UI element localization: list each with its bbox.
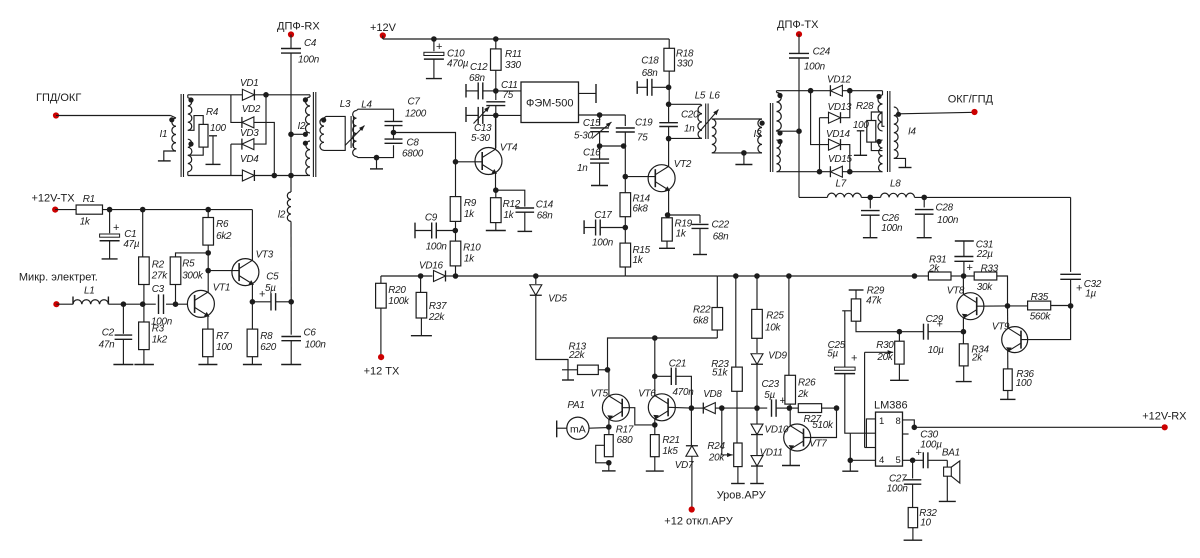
svg-text:+: + (967, 262, 973, 274)
svg-text:C12: C12 (470, 62, 488, 73)
diode VD12 (830, 85, 842, 96)
resistor R17 (604, 435, 613, 457)
svg-text:47n: 47n (99, 340, 115, 351)
ground tap R28 (857, 130, 865, 132)
svg-text:I2: I2 (298, 121, 306, 132)
svg-text:100n: 100n (426, 242, 448, 253)
svg-text:I1: I1 (160, 129, 168, 140)
resistor R9 (455, 162, 457, 197)
svg-text:R3: R3 (152, 324, 165, 335)
capacitor C2 (122, 304, 124, 334)
svg-text:100µ: 100µ (920, 440, 942, 451)
svg-text:6800: 6800 (402, 149, 424, 160)
wire VT7 base (804, 408, 837, 437)
capacitor C9 stub (414, 223, 416, 239)
svg-text:+: + (1076, 283, 1082, 295)
core L3-L4 (350, 116, 352, 148)
svg-text:5µ: 5µ (265, 283, 276, 294)
transformer T4 left winding upper (878, 95, 883, 131)
ground C6 (290, 341, 292, 365)
node ОКГ/ГПД output terminal (899, 112, 975, 114)
svg-text:R11: R11 (505, 49, 522, 60)
diode VD5 (535, 276, 537, 284)
capacitor C3 (158, 294, 160, 314)
ground L4 bottom (374, 155, 380, 161)
diode VD10 (756, 408, 758, 423)
svg-text:68n: 68n (537, 211, 553, 222)
svg-text:C24: C24 (813, 47, 831, 58)
diode VD2 (242, 117, 254, 128)
wire VD5 to R13 (536, 296, 568, 370)
ground T4 output winding (894, 158, 906, 167)
svg-text:1k: 1k (464, 254, 475, 265)
svg-text:l2: l2 (278, 210, 286, 221)
transistor VT1 (187, 290, 214, 317)
resistor R8 (247, 329, 258, 357)
svg-text:1k: 1k (633, 255, 644, 266)
ground R8 (251, 357, 253, 365)
trimmer capacitor C13 (465, 107, 467, 122)
svg-text:I3: I3 (754, 129, 762, 140)
capacitor C29 electrolytic (899, 331, 923, 333)
svg-text:C23: C23 (762, 379, 780, 390)
svg-text:BA1: BA1 (942, 448, 960, 459)
wire R33 to VT9 collector node (997, 276, 1008, 306)
svg-text:100: 100 (216, 342, 232, 353)
svg-text:100n: 100n (937, 215, 959, 226)
svg-text:C6: C6 (304, 328, 317, 339)
svg-text:R26: R26 (798, 378, 816, 389)
svg-text:R9: R9 (464, 198, 477, 209)
transformer T1 core (180, 94, 182, 177)
ground R32 (912, 528, 914, 541)
svg-text:+: + (851, 353, 857, 365)
inductor L1 (56, 303, 73, 305)
svg-text:mA: mA (570, 424, 586, 436)
wire FEM-500 output to C15 node (579, 114, 600, 116)
inductor L3 coupling loop (320, 118, 324, 150)
FEM-500 output stub top (579, 92, 597, 94)
wire VT5 base to VT6 emitter (622, 408, 655, 425)
transformer T3 right winding lower (777, 140, 781, 172)
svg-text:620: 620 (260, 342, 276, 353)
svg-text:ДПФ-ТХ: ДПФ-ТХ (777, 19, 819, 31)
resistor R20 (380, 276, 382, 283)
svg-text:1k5: 1k5 (662, 446, 678, 457)
capacitor C17 stub (583, 220, 585, 234)
node R13 VT5 collector (598, 369, 609, 371)
wire VD2 branch from top rail (231, 95, 242, 123)
inductor L8 (881, 193, 915, 197)
resistor R35 (1008, 305, 1028, 307)
resistor R2 (139, 257, 150, 285)
wiper R24 from rail (721, 408, 723, 455)
resistor R32 (912, 484, 914, 507)
svg-text:47k: 47k (866, 296, 882, 307)
transistor VT2 (648, 165, 675, 192)
resistor R5 (170, 257, 181, 285)
diode VD13 (820, 117, 829, 119)
svg-text:R6: R6 (216, 219, 229, 230)
resistor R1 (55, 209, 76, 211)
resistor R26 (788, 276, 790, 375)
wire VT9 collector (1007, 306, 1009, 328)
ground C2 R3 (113, 364, 133, 366)
capacitor C18 stub (636, 81, 638, 94)
transistor VT6 (648, 394, 675, 421)
transistor VT9 (1002, 327, 1028, 353)
resistor R27 (789, 407, 798, 409)
svg-text:VD9: VD9 (768, 351, 787, 362)
wire VT5 collector (608, 370, 610, 396)
resistor R11 (495, 39, 497, 49)
svg-text:1k: 1k (676, 229, 687, 240)
capacitor C10 electrolytic (433, 39, 435, 51)
wire +12V rail (382, 36, 384, 40)
svg-text:100n: 100n (881, 223, 903, 234)
svg-text:R22: R22 (693, 305, 711, 316)
svg-text:ОКГ/ГПД: ОКГ/ГПД (948, 94, 994, 106)
resistor R34 (959, 344, 968, 366)
resistor R19 (662, 218, 673, 241)
transistor VT3 (232, 259, 259, 286)
capacitor C27 (912, 460, 914, 478)
ground R13 left (562, 369, 578, 371)
transistor VT8 (957, 293, 984, 320)
node R18-C18 junction (668, 71, 670, 104)
resistor R21 (650, 435, 659, 457)
node C7-C8 junction (393, 126, 395, 140)
wire VT4 emitter node (495, 173, 497, 190)
svg-text:L1: L1 (84, 286, 94, 297)
filter FEM-500 (521, 82, 579, 123)
resistor R15 (620, 243, 631, 267)
wire C21 to VD7 column (676, 376, 691, 408)
svg-text:VD3: VD3 (240, 128, 259, 139)
wire L7-L8 rail (799, 196, 827, 198)
svg-text:330: 330 (505, 60, 521, 71)
svg-text:R25: R25 (766, 311, 784, 322)
svg-text:10µ: 10µ (928, 345, 944, 356)
wire L1 to C3 (108, 303, 155, 305)
wire audio detector rail (722, 407, 767, 409)
capacitor C7 (385, 120, 403, 122)
wire R10 to AGC rail (455, 266, 457, 276)
svg-text:VD5: VD5 (548, 294, 567, 305)
wire VT5 collector to R22 rail (608, 338, 718, 370)
diode VD4 (242, 170, 254, 181)
ground R21 (654, 457, 656, 471)
wire VT6 base (668, 406, 691, 409)
wire LM386 pin4 ground (850, 459, 875, 461)
svg-text:5-30: 5-30 (574, 131, 594, 142)
svg-text:330: 330 (677, 59, 693, 70)
svg-text:6k8: 6k8 (633, 204, 649, 215)
resistor R31 (915, 275, 929, 277)
svg-text:2k: 2k (928, 264, 940, 275)
node C20 top junction (666, 102, 672, 108)
svg-text:68n: 68n (713, 232, 729, 243)
svg-text:5-30: 5-30 (471, 133, 491, 144)
svg-text:VT1: VT1 (213, 283, 230, 294)
ground R19 (666, 241, 668, 248)
svg-text:47µ: 47µ (123, 239, 139, 250)
svg-text:1n: 1n (577, 163, 588, 174)
svg-text:R21: R21 (662, 435, 679, 446)
svg-text:VT5: VT5 (591, 389, 609, 400)
wire VT4 collector to C11 node (495, 115, 497, 149)
svg-text:VD7: VD7 (675, 460, 694, 471)
capacitor C16 (599, 146, 601, 159)
svg-text:1k: 1k (80, 217, 91, 228)
svg-text:2k: 2k (971, 353, 983, 364)
ground VT7 emitter (789, 449, 791, 465)
transformer T4 left winding lower (879, 140, 883, 172)
svg-text:VT2: VT2 (674, 159, 692, 170)
svg-text:C7: C7 (408, 97, 421, 108)
capacitor C31 electrolytic (955, 240, 974, 242)
wire VT1 emitter to R7 (207, 316, 209, 329)
svg-text:VT8: VT8 (947, 286, 965, 297)
svg-text:100: 100 (210, 123, 226, 134)
svg-text:100: 100 (1016, 378, 1032, 389)
node R9-R10 C9 junction (455, 221, 457, 241)
svg-text:+12 ТХ: +12 ТХ (364, 366, 400, 378)
tuning arrow L4 (345, 126, 365, 146)
ground T1 primary (164, 151, 176, 161)
svg-text:+12V-RX: +12V-RX (1142, 411, 1187, 423)
ground R17 (606, 460, 612, 466)
svg-text:300k: 300k (182, 271, 204, 282)
svg-text:C3: C3 (152, 284, 165, 295)
diode VD7 (690, 408, 692, 445)
node +12V-RX terminal (914, 426, 1164, 428)
svg-text:Микр. электрет.: Микр. электрет. (19, 272, 98, 284)
ground R7 (207, 357, 209, 365)
wire top rail T3 to T4 (776, 91, 778, 93)
capacitor C19 (624, 115, 626, 126)
svg-text:5µ: 5µ (764, 390, 775, 401)
wire R20 to VD16 (381, 275, 433, 277)
svg-text:1: 1 (879, 416, 884, 427)
capacitor C26 (869, 197, 871, 208)
svg-text:75: 75 (637, 133, 648, 144)
svg-text:C17: C17 (594, 210, 612, 221)
wire VD3 to top rail (254, 95, 266, 144)
capacitor C1 electrolytic (109, 210, 111, 234)
wire L6 to T3 (712, 118, 762, 120)
svg-text:1k: 1k (464, 209, 475, 220)
svg-text:27k: 27k (151, 271, 168, 282)
wire LM386 pin1 (866, 419, 875, 448)
svg-text:L5: L5 (695, 91, 706, 102)
svg-text:22k: 22k (568, 350, 585, 361)
wire C19 to VT2 base chain (624, 146, 626, 193)
wire R29 bottom to R30 node (856, 321, 899, 332)
resistor R28 (867, 121, 876, 143)
svg-text:1n: 1n (684, 124, 695, 135)
tuning arrow L5-L6 (701, 110, 719, 131)
transformer T1 secondary lower winding (188, 139, 192, 172)
ground center tap R4 (209, 135, 217, 137)
svg-text:68n: 68n (469, 73, 485, 84)
capacitor C25 electrolytic from R29 tap (842, 310, 851, 312)
wire VD13 to bottom rail (819, 118, 821, 172)
diode VD16 (434, 271, 446, 282)
wire R23 to R24 (736, 391, 738, 443)
svg-text:30k: 30k (977, 282, 993, 293)
diode VD3 (231, 143, 242, 145)
wire VT3 emitter node (251, 284, 253, 329)
svg-text:R2: R2 (152, 260, 165, 271)
svg-text:22k: 22k (428, 312, 445, 323)
ground R36 (1007, 391, 1009, 400)
node +12 откл.АРУ terminal (691, 456, 693, 509)
wire VT2 emitter to R19 (668, 190, 670, 218)
svg-text:C9: C9 (425, 213, 438, 224)
svg-text:C14: C14 (536, 200, 554, 211)
wire VT7 collector (789, 408, 791, 426)
svg-text:C28: C28 (936, 203, 954, 214)
wire to FEM-500 filter inputs (496, 90, 521, 92)
ground R30 (898, 364, 900, 380)
wire C25 to LM386 pin2 (845, 374, 851, 434)
svg-text:470µ: 470µ (447, 59, 469, 70)
svg-text:1k: 1k (503, 210, 514, 221)
svg-text:VD4: VD4 (240, 154, 259, 165)
svg-text:51k: 51k (712, 368, 728, 379)
wire ГПД/ОКГ to T1 primary (56, 115, 171, 117)
svg-text:R7: R7 (216, 331, 229, 342)
pin 7 stub (903, 433, 909, 435)
svg-text:L8: L8 (890, 179, 901, 190)
core L5-L6 (705, 104, 707, 140)
ground R34 (963, 366, 965, 382)
svg-text:C18: C18 (641, 56, 659, 67)
svg-text:2k: 2k (797, 389, 809, 400)
wire VT8 collector (962, 276, 964, 294)
transformer T1 primary winding I1 (171, 116, 176, 119)
svg-text:C4: C4 (304, 38, 317, 49)
capacitor C20 (659, 122, 678, 124)
transformer T2 core (312, 92, 314, 177)
svg-text:VD13: VD13 (828, 102, 852, 113)
capacitor C28 (923, 197, 925, 207)
svg-text:+12V: +12V (370, 22, 397, 34)
resistor R22 (716, 276, 718, 308)
svg-text:5µ: 5µ (827, 349, 838, 360)
transformer T1 secondary upper winding (188, 98, 192, 131)
capacitor C23 electrolytic (771, 399, 773, 416)
wire T3 tap to C24 column (776, 131, 778, 132)
resistor R37 (420, 276, 422, 292)
svg-text:PA1: PA1 (567, 400, 584, 411)
svg-text:C15: C15 (583, 118, 601, 129)
svg-text:ГПД/ОКГ: ГПД/ОКГ (36, 92, 81, 104)
capacitor C32 (1060, 273, 1081, 275)
transistor VT5 (602, 394, 629, 421)
svg-text:VT6: VT6 (638, 389, 656, 400)
svg-text:C20: C20 (681, 110, 699, 121)
ground L6-T3 loop (743, 153, 745, 165)
svg-text:8: 8 (896, 416, 901, 427)
svg-text:6k8: 6k8 (693, 316, 709, 327)
svg-text:R1: R1 (83, 194, 95, 205)
diode VD14 (811, 91, 829, 145)
ground detector diodes (756, 466, 758, 483)
wire VT5 emitter node (608, 420, 610, 435)
svg-text:VD14: VD14 (826, 129, 850, 140)
capacitor C8 (385, 138, 403, 140)
wire bottom rail to T2 (255, 175, 307, 177)
wire VD3 branch to bottom rail (230, 144, 232, 175)
transformer T3 right winding upper (777, 93, 782, 131)
ground R37 (420, 318, 422, 336)
svg-text:R20: R20 (388, 285, 406, 296)
svg-text:C19: C19 (635, 118, 653, 129)
transformer T4 core (887, 91, 889, 172)
node top rail junction (255, 94, 307, 96)
wire C4 to T2 center tap (290, 53, 292, 175)
resistor R6 (203, 218, 214, 246)
inductor L7 (827, 193, 861, 197)
node VT1 collector VT3 base (207, 253, 209, 292)
resistor R7 (203, 329, 214, 357)
svg-text:4: 4 (879, 455, 884, 466)
resistor R33 (974, 272, 997, 280)
transistor VT7 (784, 424, 811, 451)
svg-text:VT4: VT4 (500, 143, 518, 154)
svg-text:10k: 10k (765, 323, 781, 334)
wire R11 to C11 node (495, 70, 497, 100)
svg-text:VD1: VD1 (240, 78, 258, 89)
svg-text:R35: R35 (1031, 292, 1049, 303)
wire VT9 base to C32 node (1021, 306, 1071, 340)
resistor R18 (668, 39, 670, 48)
diode VD11 (756, 435, 758, 455)
wire VD2 to bottom rail (254, 122, 275, 175)
svg-text:+: + (113, 222, 119, 234)
svg-text:22µ: 22µ (976, 249, 993, 260)
svg-text:ФЭМ-500: ФЭМ-500 (526, 98, 573, 110)
svg-text:100n: 100n (804, 62, 826, 73)
svg-text:VD11: VD11 (760, 448, 783, 459)
wire AGC rail (456, 275, 626, 277)
svg-text:C29: C29 (926, 314, 944, 325)
ground C1 (109, 241, 111, 259)
svg-text:VD12: VD12 (827, 75, 851, 86)
inductor L2 (290, 176, 292, 193)
svg-text:100n: 100n (305, 340, 327, 351)
svg-text:R28: R28 (856, 101, 874, 112)
svg-text:C5: C5 (266, 272, 279, 283)
resistor R25 (756, 276, 758, 309)
ground R12 (495, 223, 497, 231)
transformer T3 left winding I3 (758, 119, 762, 153)
svg-text:C21: C21 (669, 359, 686, 370)
svg-text:R17: R17 (616, 425, 634, 436)
svg-text:R24: R24 (707, 441, 725, 452)
transformer T3 core (769, 103, 771, 172)
wire T4 taps to R28 (871, 112, 884, 126)
diode VD15 (777, 171, 831, 173)
capacitor C14 (496, 190, 525, 206)
resistor R10 (450, 241, 461, 266)
wire bottom rail T1 to T2 (187, 172, 189, 176)
svg-text:LM386: LM386 (874, 400, 908, 412)
wire C24 to T3 tap and L7 rail (798, 58, 800, 197)
svg-text:R37: R37 (429, 301, 447, 312)
